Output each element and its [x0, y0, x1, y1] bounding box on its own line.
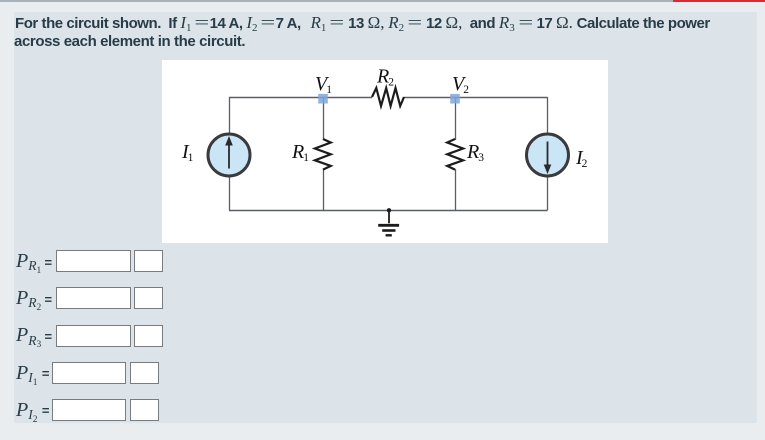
- ground: [378, 210, 399, 235]
- node V1 marker: [318, 94, 328, 104]
- resistor R2: [372, 88, 404, 106]
- wire left: [229, 97, 231, 210]
- resistor R1: [315, 139, 331, 170]
- wire R3 branch top: [455, 97, 457, 140]
- svg-text:I1: I1: [181, 141, 194, 164]
- current source I2: [527, 134, 569, 176]
- wire R1 branch top: [323, 97, 325, 140]
- svg-text:I2: I2: [575, 147, 588, 170]
- svg-text:V2: V2: [452, 73, 469, 96]
- node V2 marker: [450, 94, 460, 104]
- svg-text:R1: R1: [291, 141, 309, 164]
- svg-text:R2: R2: [376, 66, 394, 89]
- wire top: [229, 97, 372, 99]
- wire top right: [404, 97, 548, 99]
- svg-text:V1: V1: [315, 73, 332, 96]
- wire right: [547, 97, 549, 210]
- wire bottom: [229, 210, 548, 212]
- current source I1: [208, 134, 250, 176]
- answer rows: [16, 250, 41, 273]
- wire R3 branch bottom: [455, 169, 457, 210]
- svg-text:R3: R3: [466, 141, 484, 164]
- resistor R3: [447, 139, 463, 170]
- junction dot: [387, 208, 391, 212]
- wire R1 branch bottom: [323, 169, 325, 210]
